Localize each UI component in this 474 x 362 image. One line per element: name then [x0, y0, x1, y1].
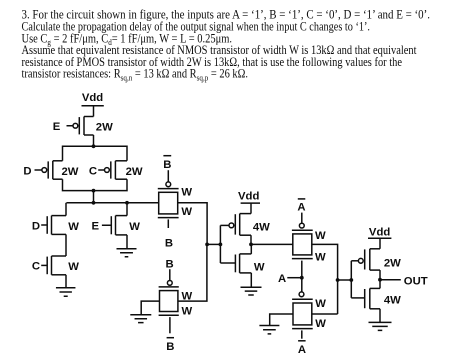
PMOS U2 (4W) drain lead	[240, 213, 251, 215]
svg-text:E: E	[92, 221, 100, 233]
wire TG-R2 left to ground	[270, 314, 293, 325]
svg-text:transistor resistances: Rsq,n: transistor resistances: Rsq,n = 13 kΩ an…	[22, 67, 249, 83]
svg-text:W: W	[181, 187, 192, 199]
PMOS U2 (4W) gate	[220, 224, 229, 226]
PMOS U3 (2W) gate	[351, 260, 358, 262]
pass transistor pair TG-L1 top gate bar	[158, 188, 179, 190]
ground (left of TG-R2)	[259, 326, 279, 334]
wire B-bar to TG-L1 bubble	[167, 170, 169, 182]
svg-text:4W: 4W	[253, 221, 270, 233]
NMOS C (W) gate	[41, 264, 47, 266]
node M dot	[205, 243, 209, 247]
node N2 dot	[125, 201, 129, 205]
pass transistor pair TG-R1 bottom gate bar	[292, 258, 313, 260]
PMOS E1 (2W) gate	[67, 125, 74, 127]
pass transistor pair TG-L2 bottom gate bar	[159, 314, 179, 316]
wire NMOS U2 drain up to node S2	[250, 244, 252, 254]
node N1 dot	[92, 201, 96, 205]
wire A-bar to TG-R1 bubble	[301, 213, 303, 224]
wire A to node A dot	[287, 277, 302, 279]
svg-text:A: A	[297, 202, 305, 214]
wire stage-1 output rail	[66, 202, 158, 204]
svg-text:B: B	[166, 341, 174, 353]
node inverter-2 input dot	[219, 243, 223, 247]
PMOS E1 (2W) channel	[83, 117, 85, 136]
svg-text:C: C	[32, 261, 40, 273]
wire 2W PMOS source to OUT node	[379, 270, 381, 280]
svg-text:A: A	[298, 344, 306, 356]
wire bus to inverter-3 input	[338, 279, 352, 281]
ground (below NMOS U2)	[241, 287, 262, 295]
PMOS U2 (4W) source lead	[240, 234, 251, 236]
node OUT dot	[378, 278, 382, 282]
NMOS U2 (W) gate	[220, 262, 235, 264]
pass transistor pair TG-L1 bottom gate bar	[158, 217, 179, 219]
wire C NMOS source to ground	[65, 275, 67, 288]
svg-text:OUT: OUT	[404, 275, 428, 287]
svg-text:B: B	[166, 258, 174, 270]
svg-text:E: E	[53, 121, 61, 133]
NMOS C (W) channel	[51, 256, 53, 275]
NMOS U2 (W) drain lead	[240, 253, 252, 255]
wire D NMOS source to C NMOS drain	[65, 234, 67, 256]
PMOS D (2W) gate	[35, 169, 42, 171]
wire E PMOS source down to node P1	[93, 135, 95, 146]
NMOS E (W) source lead	[116, 234, 128, 236]
wire TG-L2 right to node M	[178, 244, 207, 301]
PMOS D (2W) drain lead	[53, 160, 63, 162]
pass transistor pair TG-R1 top gate bar	[292, 229, 313, 231]
NMOS D (W) source lead	[52, 233, 67, 235]
svg-text:2W: 2W	[384, 257, 401, 269]
wire OUT	[380, 279, 401, 281]
NMOS D (W) gate	[41, 224, 47, 226]
svg-text:C: C	[89, 166, 97, 178]
pass transistor pair TG-L2 box	[160, 291, 178, 312]
node inverter-3 input dot	[349, 278, 353, 282]
ground (left of TG-L2)	[130, 315, 151, 323]
TG-R2 top gate bubble	[299, 292, 304, 297]
svg-text:D: D	[23, 166, 31, 178]
node bus tap dot	[336, 278, 340, 282]
pass transistor pair TG-R2 bottom gate bar	[292, 328, 313, 330]
wire Vdd to E PMOS drain	[93, 106, 95, 117]
svg-text:W: W	[315, 251, 326, 263]
node S2 dot	[249, 243, 253, 247]
wire TG-R2 right to vertical bus	[312, 313, 338, 315]
wire node S2 to TG-R1 left	[251, 243, 293, 245]
wire Vdd to 2W PMOS	[379, 238, 381, 249]
wire TG-R1 right to vertical bus	[312, 244, 338, 314]
svg-text:W: W	[182, 306, 193, 318]
NMOS U3 (4W) drain lead	[370, 287, 380, 289]
PMOS C (2W) source lead	[115, 178, 127, 180]
NMOS D (W) channel	[51, 216, 53, 235]
PMOS C (2W) drain lead	[115, 160, 127, 162]
svg-text:2W: 2W	[96, 121, 113, 133]
TG-L2 top gate bubble	[167, 281, 172, 286]
svg-text:Vdd: Vdd	[82, 92, 103, 104]
svg-text:W: W	[315, 318, 326, 330]
PMOS U3 (2W) source lead	[370, 269, 380, 271]
wire TG-L1 right to node M	[178, 203, 207, 245]
PMOS U3 (2W) channel	[369, 249, 371, 270]
NMOS U2 (W) source lead	[240, 272, 252, 274]
NMOS E (W) channel	[115, 216, 117, 235]
node P1 dot	[92, 144, 96, 148]
svg-text:W: W	[181, 206, 192, 218]
Vdd rail (middle)	[241, 202, 260, 204]
wire rail to D NMOS drain	[65, 203, 67, 216]
NMOS U2 (W) channel	[239, 254, 241, 273]
NMOS C (W) source lead	[52, 274, 67, 276]
svg-text:Vdd: Vdd	[369, 226, 390, 238]
pass transistor pair TG-L1 box	[159, 192, 178, 214]
NMOS C (W) drain lead	[52, 255, 67, 257]
pass transistor pair TG-R1 box	[293, 234, 312, 255]
svg-text:W: W	[254, 261, 265, 273]
NMOS E (W) gate	[102, 224, 111, 226]
wire node P2 to node N1	[93, 191, 95, 203]
svg-text:W: W	[315, 298, 326, 310]
pass transistor pair TG-L2 top gate bar	[159, 286, 179, 288]
wire TG-L1 bottom gate to B	[167, 219, 169, 228]
PMOS E1 (2W) drain lead	[84, 116, 94, 118]
NMOS U3 (4W) channel	[369, 288, 371, 308]
wire TG-L2 bottom gate to B-bar	[169, 317, 171, 333]
PMOS C (2W) channel	[114, 161, 116, 179]
svg-text:W: W	[315, 230, 326, 242]
pass transistor pair TG-R2 top gate bar	[292, 298, 313, 300]
svg-text:W: W	[129, 221, 140, 233]
wire Vdd to 4W PMOS	[250, 203, 252, 214]
wire node M to inverter-2 input	[207, 243, 220, 245]
NMOS U3 (4W) source lead	[370, 308, 380, 310]
ground (below NMOS U3)	[369, 322, 392, 330]
wire top rail of D/C PMOS pair	[63, 146, 128, 161]
wire 4W PMOS source to node S2	[250, 235, 252, 244]
node P2 dot	[92, 189, 96, 193]
svg-text:2W: 2W	[62, 166, 79, 178]
svg-text:B: B	[163, 159, 171, 171]
ground (below E NMOS)	[117, 249, 137, 257]
TG-R1 top gate bubble	[299, 223, 304, 228]
wire E NMOS source to ground	[126, 235, 128, 249]
Vdd rail (left)	[82, 105, 104, 107]
wire bottom rail of D/C PMOS pair	[63, 179, 128, 190]
PMOS C (2W) gate	[98, 169, 104, 171]
NMOS D (W) drain lead	[52, 215, 67, 217]
svg-text:W: W	[68, 261, 79, 273]
svg-text:D: D	[32, 221, 40, 233]
svg-text:Vdd: Vdd	[238, 191, 259, 203]
NMOS E (W) drain lead	[116, 215, 128, 217]
svg-text:W: W	[68, 221, 79, 233]
PMOS E1 (2W) source lead	[84, 134, 94, 136]
PMOS D (2W) source lead	[53, 178, 63, 180]
NMOS U3 (4W) gate	[351, 297, 364, 299]
wire rail to E NMOS drain	[126, 203, 128, 216]
pass transistor pair TG-R2 box	[293, 303, 312, 325]
wire TG-R2 bottom gate to A-bar	[301, 330, 303, 338]
PMOS U3 (2W) drain lead	[370, 248, 380, 250]
wire NMOS U3 drain up to OUT node	[379, 280, 381, 289]
wire TG-R1 bottom gate to node A	[301, 261, 303, 292]
wire NMOS U3 source to ground	[379, 309, 381, 323]
PMOS D (2W) channel	[52, 161, 54, 179]
PMOS U2 (4W) channel	[239, 214, 241, 236]
wire B to TG-L2 bubble	[169, 269, 171, 280]
svg-text:A: A	[278, 273, 286, 285]
svg-text:4W: 4W	[384, 295, 401, 307]
TG-L1 top gate bubble	[166, 182, 171, 187]
Vdd rail (right)	[368, 237, 391, 239]
inverter-2 input vertical	[219, 225, 221, 263]
svg-text:B: B	[165, 237, 173, 249]
node A dot	[300, 276, 304, 280]
ground (below C NMOS)	[56, 288, 75, 297]
inverter-3 input vertical	[350, 261, 352, 298]
wire NMOS U2 source to ground	[250, 273, 252, 287]
svg-text:2W: 2W	[126, 166, 143, 178]
wire TG-L2 left to ground	[141, 301, 159, 315]
